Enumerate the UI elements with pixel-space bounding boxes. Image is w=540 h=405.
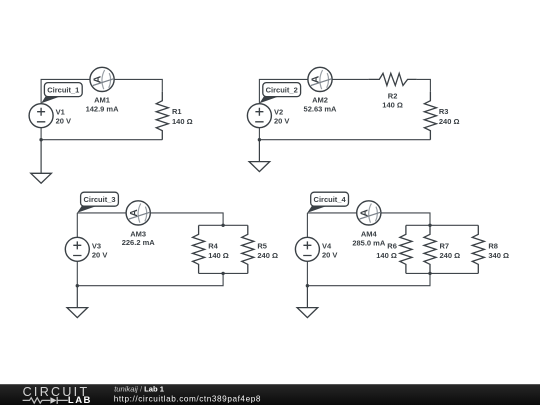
svg-text:R5: R5 <box>257 241 267 250</box>
svg-text:AM3: AM3 <box>130 229 146 238</box>
svg-text:V2: V2 <box>274 107 283 116</box>
svg-text:R1: R1 <box>172 107 182 116</box>
svg-text:V3: V3 <box>92 241 101 250</box>
svg-text:240 Ω: 240 Ω <box>440 251 461 260</box>
svg-text:340 Ω: 340 Ω <box>488 251 509 260</box>
svg-text:tunikaij / Lab 1: tunikaij / Lab 1 <box>114 385 165 394</box>
svg-text:R2: R2 <box>388 92 398 101</box>
svg-text:LAB: LAB <box>68 395 92 405</box>
svg-text:AM2: AM2 <box>312 96 328 105</box>
svg-text:Circuit_2: Circuit_2 <box>266 86 298 95</box>
svg-text:140 Ω: 140 Ω <box>208 251 229 260</box>
svg-text:142.9 mA: 142.9 mA <box>86 104 120 113</box>
svg-text:R3: R3 <box>439 107 449 116</box>
svg-text:20 V: 20 V <box>322 251 337 260</box>
svg-text:226.2 mA: 226.2 mA <box>122 238 156 247</box>
svg-text:R7: R7 <box>440 241 450 250</box>
svg-text:R4: R4 <box>208 241 218 250</box>
svg-text:http://circuitlab.com/ctn389pa: http://circuitlab.com/ctn389paf4ep8 <box>114 395 261 404</box>
svg-text:140 Ω: 140 Ω <box>376 251 397 260</box>
svg-text:20 V: 20 V <box>274 117 289 126</box>
svg-text:20 V: 20 V <box>56 117 71 126</box>
svg-text:240 Ω: 240 Ω <box>439 117 460 126</box>
svg-text:Circuit_3: Circuit_3 <box>83 195 115 204</box>
svg-text:V4: V4 <box>322 241 332 250</box>
svg-text:Circuit_1: Circuit_1 <box>47 86 79 95</box>
svg-text:AM1: AM1 <box>94 96 110 105</box>
svg-text:R8: R8 <box>488 241 498 250</box>
svg-text:R6: R6 <box>387 241 397 250</box>
svg-text:20 V: 20 V <box>92 251 107 260</box>
svg-text:AM4: AM4 <box>361 229 378 238</box>
svg-text:140 Ω: 140 Ω <box>382 101 403 110</box>
svg-text:285.0 mA: 285.0 mA <box>352 238 386 247</box>
svg-text:V1: V1 <box>56 107 65 116</box>
svg-text:Circuit_4: Circuit_4 <box>314 195 347 204</box>
svg-text:140 Ω: 140 Ω <box>172 117 193 126</box>
svg-text:52.63 mA: 52.63 mA <box>304 104 338 113</box>
svg-text:240 Ω: 240 Ω <box>257 251 278 260</box>
